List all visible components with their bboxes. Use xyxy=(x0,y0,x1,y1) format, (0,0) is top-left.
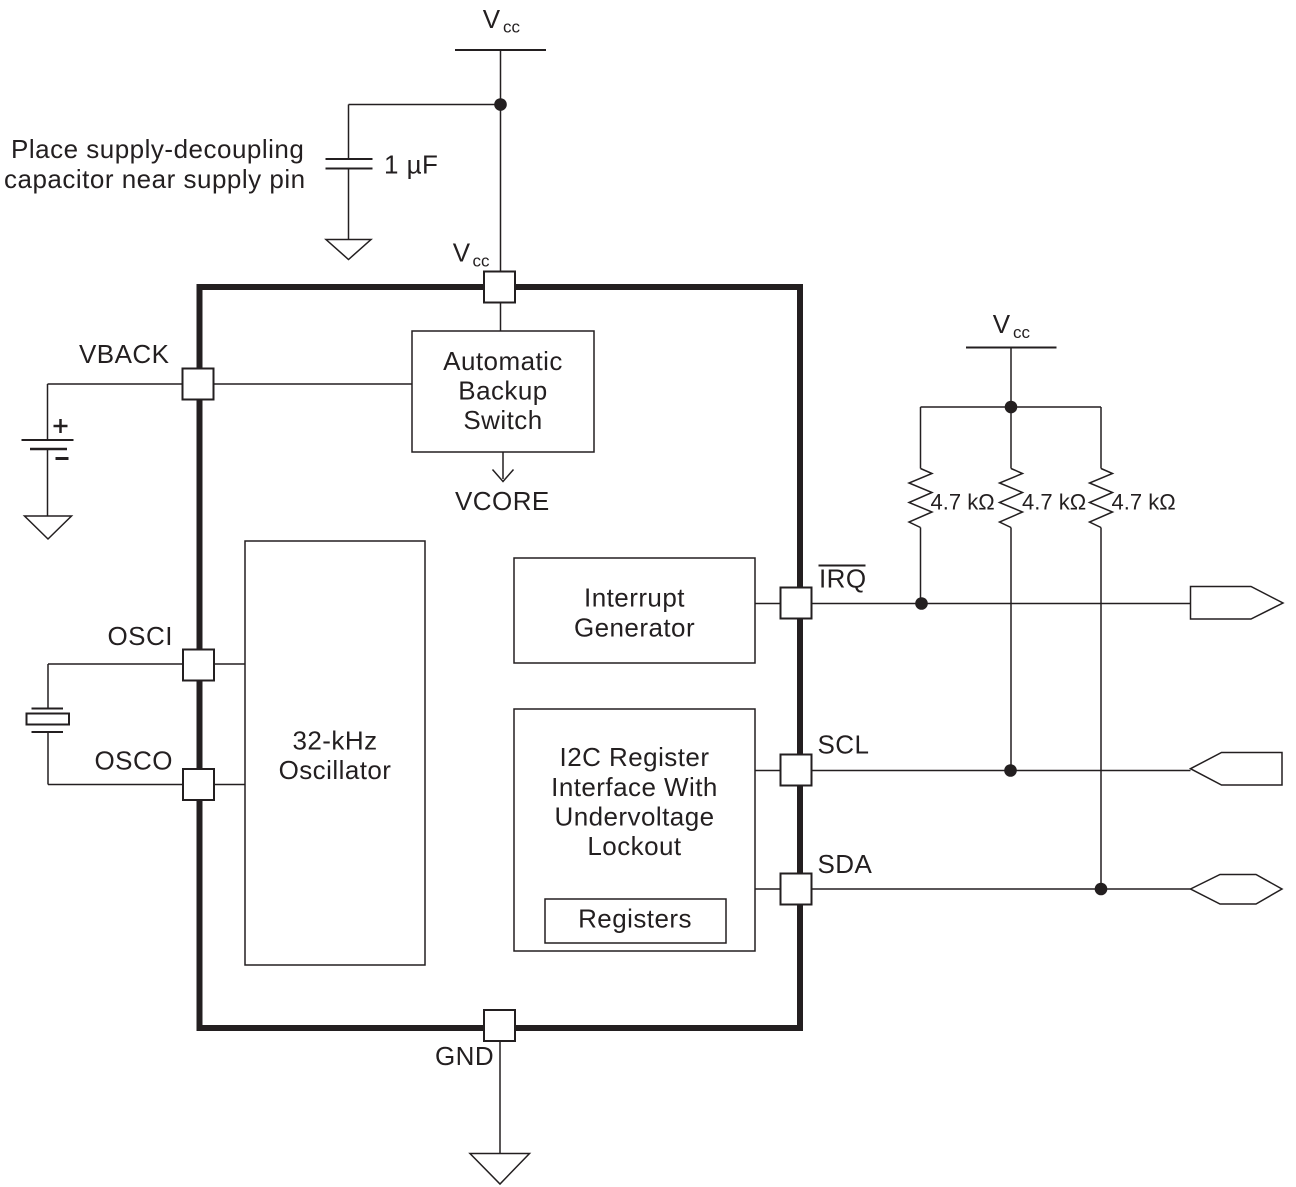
svg-text:Registers: Registers xyxy=(578,904,692,934)
svg-text:4.7 kΩ: 4.7 kΩ xyxy=(931,490,995,515)
svg-text:1 µF: 1 µF xyxy=(384,150,438,180)
svg-text:IRQ: IRQ xyxy=(819,564,867,594)
svg-text:Backup: Backup xyxy=(458,376,547,406)
svg-text:cc: cc xyxy=(1013,323,1031,342)
svg-text:4.7 kΩ: 4.7 kΩ xyxy=(1112,490,1176,515)
svg-text:Lockout: Lockout xyxy=(587,831,682,861)
svg-text:VCORE: VCORE xyxy=(455,486,550,516)
svg-text:SDA: SDA xyxy=(818,849,873,879)
svg-text:Oscillator: Oscillator xyxy=(279,755,392,785)
svg-text:cc: cc xyxy=(503,18,521,37)
svg-text:V: V xyxy=(483,4,501,34)
svg-text:VBACK: VBACK xyxy=(79,339,170,369)
svg-text:Interface With: Interface With xyxy=(551,772,718,802)
svg-text:cc: cc xyxy=(473,252,491,271)
svg-text:I2C Register: I2C Register xyxy=(560,742,710,772)
svg-text:4.7 kΩ: 4.7 kΩ xyxy=(1022,490,1086,515)
svg-text:Place supply-decoupling: Place supply-decoupling xyxy=(11,134,304,164)
svg-text:OSCI: OSCI xyxy=(108,621,173,651)
svg-text:Automatic: Automatic xyxy=(443,346,563,376)
svg-text:V: V xyxy=(993,309,1011,339)
svg-text:Generator: Generator xyxy=(574,613,695,643)
svg-text:GND: GND xyxy=(435,1041,494,1071)
svg-text:capacitor near supply pin: capacitor near supply pin xyxy=(4,164,306,194)
svg-text:V: V xyxy=(453,238,471,268)
svg-text:Undervoltage: Undervoltage xyxy=(554,802,714,832)
svg-text:Switch: Switch xyxy=(463,405,542,435)
svg-text:Interrupt: Interrupt xyxy=(584,583,685,613)
svg-text:OSCO: OSCO xyxy=(95,746,173,776)
svg-text:SCL: SCL xyxy=(818,730,870,760)
svg-text:32-kHz: 32-kHz xyxy=(292,726,377,756)
